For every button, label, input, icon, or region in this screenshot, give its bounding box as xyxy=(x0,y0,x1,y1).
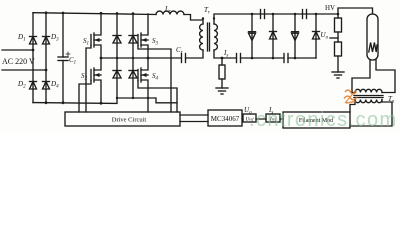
transformer Tf top winding xyxy=(355,89,382,92)
node top rail D3 xyxy=(45,11,48,14)
wire to lamp top xyxy=(338,8,373,14)
transistor S2 xyxy=(79,58,101,112)
wire AC input bottom line xyxy=(2,69,46,71)
node source wire diodes xyxy=(116,97,118,99)
wire bridge column D3/D4 xyxy=(45,13,47,103)
transformer Tf core xyxy=(354,96,383,98)
svg-text:Tr: Tr xyxy=(204,6,210,16)
capacitor multiplier bottom mid xyxy=(284,54,288,63)
wire Tf bottom winding right to block xyxy=(350,100,392,127)
node midpoint A xyxy=(100,57,103,60)
ground divider xyxy=(332,72,344,78)
svg-text:S4: S4 xyxy=(152,72,159,82)
block drive circuit xyxy=(65,112,180,126)
node bottom rail C1 xyxy=(62,101,65,104)
node Tr polarity dots xyxy=(202,17,204,19)
svg-text:D3: D3 xyxy=(50,33,59,43)
diode D3 xyxy=(43,37,50,45)
diode multiplier 4 up xyxy=(313,14,320,58)
svg-text:D4: D4 xyxy=(50,80,59,90)
capacitor multiplier bottom entry xyxy=(237,54,241,63)
watermark orange logo xyxy=(344,90,357,103)
svg-text:S1: S1 xyxy=(83,37,89,47)
transformer Tr primary xyxy=(200,24,203,50)
node top rail C1 xyxy=(62,12,65,15)
diode leg lower left xyxy=(113,58,121,98)
svg-text:AC 220 V: AC 220 V xyxy=(2,57,35,66)
lamp filament xyxy=(369,43,377,53)
ground sense xyxy=(216,88,228,94)
wire multiplier bottom rail xyxy=(241,57,317,59)
node AC bottom junction xyxy=(45,69,48,72)
wire divider bottom xyxy=(337,56,339,72)
wire Tf bottom winding left to block xyxy=(350,100,355,113)
block filament mod xyxy=(283,112,350,128)
diode leg upper left xyxy=(113,14,121,59)
lamp tube xyxy=(367,14,378,60)
wire bridge column D1/D2 xyxy=(32,13,34,103)
svg-text:Cr: Cr xyxy=(176,46,183,56)
diode multiplier 2 up xyxy=(270,14,277,58)
svg-text:.cntronics.com: .cntronics.com xyxy=(249,109,398,131)
diode D4 xyxy=(43,82,50,90)
inductor Lr xyxy=(156,11,184,14)
wire secondary top to multiplier rail xyxy=(214,14,338,24)
resistor current sense xyxy=(219,58,225,88)
diode multiplier 3 down xyxy=(292,14,299,58)
node mid diode legs xyxy=(116,57,118,59)
transistor S3 xyxy=(138,14,171,112)
diode D2 xyxy=(30,82,37,90)
transistor S4 xyxy=(138,58,177,112)
wire secondary bottom to sense node xyxy=(214,50,237,58)
node bottom rail S2 xyxy=(100,102,103,105)
diode leg lower right xyxy=(129,58,137,98)
wire lamp bottom left pin xyxy=(352,60,370,93)
wire MC34067 to reference boxes xyxy=(242,118,283,120)
svg-text:Drive Circuit: Drive Circuit xyxy=(112,117,147,124)
box Uref xyxy=(243,114,256,122)
wire AC input top line xyxy=(2,49,33,51)
svg-text:HV: HV xyxy=(325,4,335,12)
transformer Tr secondary xyxy=(214,24,217,50)
svg-text:Lr: Lr xyxy=(164,5,171,15)
wire top rail xyxy=(33,13,156,15)
capacitor Cr xyxy=(182,50,204,63)
node top rail diode legs xyxy=(116,12,119,15)
svg-text:S3: S3 xyxy=(152,37,159,47)
node AC top junction xyxy=(32,49,35,52)
resistor divider R2 xyxy=(335,42,342,56)
wire midpoint row xyxy=(101,57,181,59)
wire bottom rail xyxy=(33,98,177,103)
wire top rail after inductor to transformer primary xyxy=(184,15,203,25)
node multiplier top rail xyxy=(251,13,254,16)
svg-text:C1: C1 xyxy=(69,56,76,66)
svg-text:D2: D2 xyxy=(17,80,26,90)
capacitor multiplier top 1 xyxy=(261,10,265,19)
svg-text:D1: D1 xyxy=(17,33,26,43)
wire HV corner to divider and lamp xyxy=(337,14,339,18)
wire drive to MC34067 xyxy=(180,115,208,122)
node bottom rail D3 xyxy=(45,101,48,104)
box Iref xyxy=(266,114,280,122)
transformer Tr core xyxy=(208,23,210,51)
node top rail S1 xyxy=(100,12,103,15)
capacitor multiplier top 2 xyxy=(303,10,307,19)
diode D1 xyxy=(30,37,37,45)
svg-text:Is: Is xyxy=(223,49,228,59)
transistor S1 xyxy=(86,13,101,112)
resistor divider R1 xyxy=(335,18,342,32)
node multiplier bottom rail xyxy=(251,57,254,60)
svg-text:MC34067: MC34067 xyxy=(211,115,240,123)
node midpoint B xyxy=(147,57,150,60)
diode leg upper right xyxy=(129,14,137,58)
svg-text:Uo: Uo xyxy=(321,31,329,41)
wire divider mid xyxy=(337,32,339,42)
transformer Tf bottom winding xyxy=(355,100,382,103)
wire Uo tap xyxy=(330,37,338,39)
node Is junction xyxy=(221,57,224,60)
diode multiplier 1 down xyxy=(249,14,256,58)
wire lamp bottom right pin xyxy=(376,60,395,93)
capacitor C1 xyxy=(58,13,70,103)
block MC34067 xyxy=(208,110,242,126)
